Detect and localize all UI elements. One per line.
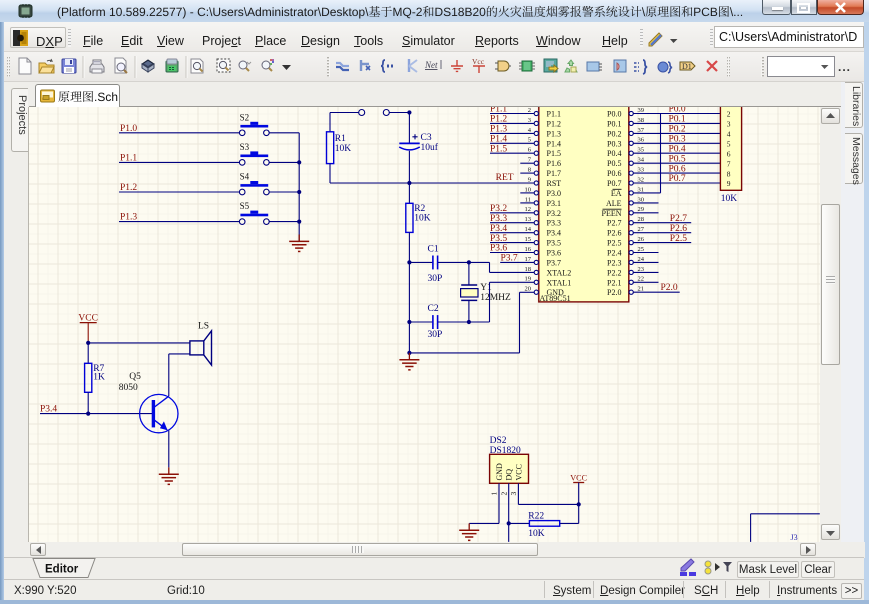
svg-text:36: 36 [638, 137, 645, 144]
pin end open circle B [383, 110, 389, 116]
svg-text:11: 11 [525, 196, 531, 203]
svg-text:Vcc: Vcc [472, 57, 485, 66]
svg-text:2: 2 [528, 107, 531, 114]
svg-text:P0.7: P0.7 [607, 179, 621, 188]
wire R1 bottom to RET rail [329, 164, 331, 183]
pushbutton S2 [239, 112, 269, 135]
svg-text:9: 9 [528, 176, 531, 183]
svg-text:P0.1: P0.1 [607, 119, 621, 128]
svg-text:3: 3 [509, 492, 518, 496]
svg-text:29: 29 [638, 206, 645, 213]
svg-text:P1.3: P1.3 [490, 125, 507, 135]
svg-text:33: 33 [638, 167, 645, 174]
svg-text:22: 22 [638, 276, 645, 283]
svg-text:R22: R22 [528, 512, 544, 522]
pin 26 P2.5 [629, 234, 691, 245]
svg-text:35: 35 [638, 147, 645, 154]
ground DS1820 [459, 523, 479, 540]
junction crystal top [467, 260, 471, 264]
svg-text:10K: 10K [528, 529, 545, 539]
pin 5 P1.4 [490, 135, 538, 146]
svg-text:P0.4: P0.4 [607, 149, 621, 158]
svg-text:2: 2 [499, 492, 508, 496]
svg-text:D1: D1 [682, 62, 692, 71]
junction VCC node [86, 341, 90, 345]
node RET net label [496, 173, 514, 183]
svg-text:P0.0: P0.0 [669, 107, 686, 115]
wire S5 to ground bus [269, 221, 299, 223]
connector J3 partial [751, 514, 820, 542]
junction VCC node DS [577, 502, 581, 506]
svg-text:9: 9 [727, 179, 731, 188]
pin 28 P2.7 [629, 214, 691, 225]
pin 36 P0.3 [629, 135, 720, 146]
svg-text:38: 38 [638, 117, 645, 124]
node P1.1 net label [120, 154, 137, 164]
svg-text:3: 3 [727, 120, 731, 129]
ground transistor emitter [159, 467, 179, 484]
svg-text:P1.2: P1.2 [490, 115, 507, 125]
svg-text:S3: S3 [240, 142, 250, 152]
svg-text:P2.4: P2.4 [607, 249, 621, 258]
svg-text:30: 30 [638, 196, 645, 203]
svg-text:R1: R1 [335, 134, 346, 144]
pin 4 P1.3 [490, 125, 538, 136]
pin 20 GND [525, 286, 539, 295]
pin 15 P3.5 [490, 234, 538, 245]
wire circle B to C3 [389, 112, 409, 114]
wire crystal ground rail [409, 262, 519, 353]
svg-text:XTAL2: XTAL2 [547, 268, 572, 277]
svg-text:3: 3 [528, 117, 531, 124]
svg-text:P0.3: P0.3 [669, 135, 686, 145]
svg-text:S5: S5 [240, 201, 250, 211]
svg-text:P3.6: P3.6 [490, 244, 507, 254]
svg-text:P0.3: P0.3 [607, 139, 621, 148]
svg-text:S4: S4 [240, 172, 250, 182]
svg-text:P1.5: P1.5 [490, 144, 507, 154]
resistor R1 10K [327, 132, 352, 164]
svg-text:P1.1: P1.1 [547, 110, 561, 119]
svg-text:P3.1: P3.1 [547, 199, 561, 208]
wire emitter to ground [168, 431, 170, 468]
temperature sensor DS2 DS1820 [490, 436, 529, 496]
svg-text:6: 6 [727, 149, 731, 158]
svg-text:P0.0: P0.0 [607, 110, 621, 119]
junction C2 left [407, 320, 411, 324]
pin 34 P0.5 [629, 154, 720, 165]
svg-text:18: 18 [525, 266, 532, 273]
svg-text:P3.2: P3.2 [547, 209, 561, 218]
svg-text:P3.2: P3.2 [490, 204, 507, 214]
svg-text:25: 25 [638, 246, 645, 253]
pin 35 P0.4 [629, 144, 720, 155]
svg-text:AT89C51: AT89C51 [540, 294, 571, 303]
svg-text:S2: S2 [240, 112, 250, 122]
svg-text:7: 7 [727, 159, 731, 168]
transistor Q2 8050 [119, 372, 178, 433]
svg-text:P3.5: P3.5 [547, 239, 561, 248]
pin 31 EA [629, 186, 660, 195]
svg-text:P3.7: P3.7 [547, 258, 561, 267]
svg-text:31: 31 [638, 186, 645, 193]
svg-text:24: 24 [638, 256, 645, 263]
svg-text:P2.1: P2.1 [607, 278, 621, 287]
svg-text:DQ: DQ [505, 469, 514, 481]
junction base node [86, 412, 90, 416]
status bar [4, 579, 864, 600]
caption buttons [762, 0, 791, 15]
svg-text:P0.6: P0.6 [669, 164, 686, 174]
svg-text:P1.2: P1.2 [547, 119, 561, 128]
op-amp U1 AT89C51 microcontroller body [539, 100, 629, 303]
power VCC transistor [78, 314, 98, 343]
node P1.2 net label [120, 183, 137, 193]
pin 6 P1.5 [490, 144, 538, 155]
svg-text:23: 23 [638, 266, 645, 273]
svg-text:VCC: VCC [514, 464, 523, 480]
pin 3 P1.2 [490, 115, 538, 126]
svg-text:10K: 10K [335, 144, 352, 154]
svg-text:30P: 30P [428, 330, 443, 340]
pushbutton S5 [239, 201, 269, 224]
pin 39 P0.0 [629, 105, 720, 116]
svg-text:14: 14 [525, 226, 532, 233]
capacitor C1 30P [409, 245, 469, 285]
pin 19 XTAL1 [525, 276, 539, 285]
svg-text:P0.2: P0.2 [669, 125, 686, 135]
capacitor C3 10uf [399, 113, 439, 184]
wire XTAL1 pin19 [469, 282, 534, 322]
pin 33 P0.6 [629, 164, 720, 175]
wire VCC down to R22 [560, 504, 579, 523]
power VCC DS1820 [570, 474, 587, 505]
wire collector to speaker [169, 354, 190, 396]
toolbar [4, 52, 864, 82]
pushbutton S3 [239, 142, 269, 165]
junction S4 bus [297, 190, 301, 194]
svg-text:10K: 10K [414, 214, 431, 224]
wire button ground bus vertical [298, 133, 300, 241]
svg-text:10: 10 [525, 186, 532, 193]
wire GND pin20 [520, 292, 535, 353]
svg-text:R2: R2 [414, 204, 425, 214]
svg-text:C2: C2 [428, 304, 439, 314]
svg-text:20: 20 [525, 286, 532, 293]
pin 10 P3.0 [520, 186, 538, 195]
svg-text:12: 12 [525, 206, 532, 213]
svg-text:P1.4: P1.4 [547, 139, 561, 148]
wire S3 to ground bus [269, 161, 299, 163]
resistor R2 10K [406, 183, 431, 262]
svg-text:2: 2 [727, 110, 731, 119]
wire VCC to speaker [88, 342, 190, 344]
svg-text:39: 39 [638, 107, 645, 114]
svg-text:P3.3: P3.3 [490, 214, 507, 224]
resistor R22 10K [509, 512, 560, 539]
svg-text:32: 32 [638, 176, 645, 183]
node P3.4 net label [40, 404, 57, 414]
svg-text:VCC: VCC [570, 474, 587, 483]
svg-text:P3.4: P3.4 [40, 404, 57, 414]
wire VCC top rail left [330, 113, 359, 132]
pin end open circle A [359, 110, 365, 116]
vertical scrollbar [820, 107, 841, 542]
svg-text:30P: 30P [428, 274, 443, 284]
svg-text:PEEN: PEEN [602, 209, 622, 218]
pin 11 P3.1 [520, 196, 538, 205]
svg-text:RET: RET [496, 173, 514, 183]
svg-text:P0.7: P0.7 [669, 174, 686, 184]
svg-text:15: 15 [525, 236, 532, 243]
right panel strip [841, 82, 864, 558]
svg-text:4: 4 [727, 130, 731, 139]
svg-text:5: 5 [528, 137, 531, 144]
pushbutton S4 [239, 172, 269, 195]
svg-text:P2.0: P2.0 [607, 288, 621, 297]
wire P1.0 to S2 [119, 132, 239, 134]
svg-text:P0.5: P0.5 [607, 159, 621, 168]
svg-text:C3: C3 [421, 133, 432, 143]
svg-text:P3.5: P3.5 [490, 234, 507, 244]
svg-text:P3.4: P3.4 [547, 229, 561, 238]
svg-text:17: 17 [525, 256, 532, 263]
window side borders [0, 22, 4, 600]
resistor network RP1 10K [720, 100, 741, 204]
speaker LS [190, 322, 212, 365]
svg-text:P2.5: P2.5 [670, 234, 687, 244]
svg-text:P2.7: P2.7 [670, 214, 687, 224]
junction crystal bottom [467, 320, 471, 324]
svg-text:C1: C1 [428, 245, 439, 255]
wire P3.4 base [40, 413, 152, 415]
svg-text:37: 37 [638, 127, 645, 134]
svg-text:P0.4: P0.4 [669, 144, 686, 154]
svg-text:27: 27 [638, 226, 645, 233]
pin 18 XTAL2 [525, 266, 539, 275]
pin 37 P0.2 [629, 125, 720, 136]
svg-text:J3: J3 [791, 533, 798, 542]
pin 30 ALE [629, 196, 658, 205]
projects vertical tab [4, 82, 29, 558]
svg-text:P2.6: P2.6 [607, 229, 621, 238]
svg-text:P3.6: P3.6 [547, 249, 561, 258]
svg-text:P0.6: P0.6 [607, 169, 621, 178]
svg-text:12MHZ: 12MHZ [480, 293, 511, 303]
svg-text:P2.3: P2.3 [607, 258, 621, 267]
pin 2 P1.1 [490, 105, 538, 116]
editor tab row [4, 557, 864, 579]
svg-text:P1.4: P1.4 [490, 135, 507, 145]
wire P1.1 to S3 [119, 161, 239, 163]
wire P1.3 to S5 [119, 221, 239, 223]
pin 8 P1.7 [520, 167, 538, 176]
svg-text:GND: GND [495, 463, 504, 481]
svg-text:P2.0: P2.0 [661, 283, 678, 293]
pin 21 P2.0 [629, 283, 680, 294]
svg-text:5: 5 [727, 140, 731, 149]
svg-text:26: 26 [638, 236, 645, 243]
pin 12 P3.2 [490, 204, 538, 215]
svg-text:13: 13 [525, 216, 532, 223]
wire P1.2 to S4 [119, 191, 239, 193]
resistor R7 1K [85, 343, 105, 414]
svg-text:28: 28 [638, 216, 645, 223]
pin 17 P3.7 [500, 254, 538, 265]
svg-text:1K: 1K [93, 373, 105, 383]
wire XTAL2 pin18 [469, 262, 534, 272]
svg-text:16: 16 [525, 246, 532, 253]
svg-text:10K: 10K [721, 194, 738, 204]
pin 16 P3.6 [490, 244, 538, 255]
pin 38 P0.1 [629, 115, 720, 126]
node RET junction [407, 181, 411, 185]
svg-text:P3.7: P3.7 [501, 254, 518, 264]
svg-text:XTAL1: XTAL1 [547, 278, 572, 287]
svg-text:P0.5: P0.5 [669, 154, 686, 164]
pin 32 P0.7 [629, 174, 720, 185]
svg-text:P1.3: P1.3 [547, 129, 561, 138]
svg-text:P3.3: P3.3 [547, 219, 561, 228]
svg-text:LS: LS [198, 322, 209, 332]
pin 24 P2.3 [629, 256, 658, 265]
pin 23 P2.2 [629, 266, 658, 275]
crystal Y1 12MHZ [461, 262, 511, 322]
pin 14 P3.4 [490, 224, 538, 235]
node P1.0 net label [120, 124, 137, 134]
junction C3 top [407, 110, 411, 114]
junction S5 bus [297, 220, 301, 224]
pin 25 P2.4 [629, 246, 658, 255]
junction C1 left [407, 260, 411, 264]
svg-text:P1.5: P1.5 [547, 149, 561, 158]
wire EA to VCC rail P0.0 row [660, 114, 662, 193]
svg-text:P2.5: P2.5 [607, 239, 621, 248]
capacitor C2 30P [409, 304, 469, 340]
svg-text:P0.1: P0.1 [669, 115, 686, 125]
svg-text:EA: EA [611, 189, 622, 198]
wire S2 to ground bus [269, 132, 299, 134]
svg-text:Q5: Q5 [129, 372, 141, 382]
svg-text:Y1: Y1 [480, 283, 492, 293]
svg-text:DS2: DS2 [490, 436, 507, 446]
horizontal scrollbar [29, 542, 820, 557]
svg-text:34: 34 [638, 157, 645, 164]
pin 29 PEEN [629, 206, 658, 215]
svg-text:P1.1: P1.1 [490, 107, 507, 115]
svg-text:P0.2: P0.2 [607, 129, 621, 138]
ground crystal rail [399, 353, 419, 370]
svg-text:P2.6: P2.6 [670, 224, 687, 234]
svg-text:P3.4: P3.4 [490, 224, 507, 234]
svg-text:Editor: Editor [45, 564, 79, 576]
svg-text:ALE: ALE [606, 199, 622, 208]
svg-text:8: 8 [727, 169, 731, 178]
pin 27 P2.6 [629, 224, 691, 235]
ground buttons bus [289, 235, 309, 252]
title bar [0, 0, 869, 22]
pin 3 VCC wire [518, 483, 578, 504]
svg-text:19: 19 [525, 276, 532, 283]
svg-text:8: 8 [528, 167, 531, 174]
svg-text:P2.2: P2.2 [607, 268, 621, 277]
svg-text:8050: 8050 [119, 383, 138, 393]
tab bar [4, 82, 864, 107]
svg-text:RST: RST [547, 179, 562, 188]
wire S4 to ground bus [269, 191, 299, 193]
pin 2 DQ wire [508, 483, 510, 542]
wire RET rail [330, 182, 534, 184]
svg-text:P3.0: P3.0 [547, 189, 561, 198]
svg-text:21: 21 [638, 286, 645, 293]
editor area [29, 107, 820, 542]
junction DQ R22 [507, 521, 511, 525]
pin 1 GND wire [469, 483, 499, 523]
svg-text:1: 1 [490, 492, 499, 496]
menu bar [4, 22, 864, 52]
junction S3 bus [297, 160, 301, 164]
node P1.3 net label [120, 213, 137, 223]
pin 13 P3.3 [490, 214, 538, 225]
svg-text:Net: Net [424, 60, 438, 70]
pin 22 P2.1 [629, 276, 658, 285]
svg-text:P2.7: P2.7 [607, 219, 621, 228]
svg-text:P1.6: P1.6 [547, 159, 561, 168]
pin 7 P1.6 [520, 157, 538, 166]
pin 9 RST [528, 176, 539, 185]
junction ground rail [407, 351, 411, 355]
svg-text:P1.7: P1.7 [547, 169, 561, 178]
svg-text:10uf: 10uf [421, 142, 439, 153]
